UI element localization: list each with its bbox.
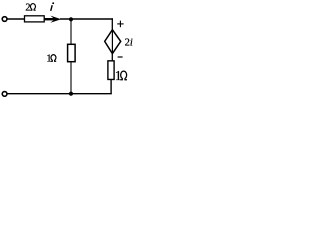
wire middle branch [70, 20, 72, 94]
wire bottom [7, 93, 112, 95]
terminal top-left [2, 17, 7, 22]
svg-text:2: 2 [25, 2, 30, 13]
wire diamond to resistor [111, 53, 113, 61]
minus sign polarity [118, 56, 123, 58]
current arrow i [44, 16, 61, 23]
controlled source U1 diamond [105, 30, 121, 54]
terminal bottom-left [2, 92, 7, 97]
node A junction dot top [69, 17, 73, 21]
svg-text:2i: 2i [125, 38, 133, 49]
wire top-right corner down [111, 18, 113, 30]
resistor R1 value label 2ohm [25, 2, 35, 13]
resistor R2 1ohm box middle [68, 44, 76, 61]
plus sign polarity [117, 21, 123, 28]
wire resistor to bottom [110, 80, 112, 94]
wire top-middle [60, 18, 113, 20]
resistor R3 value label 1ohm [115, 68, 127, 83]
resistor R1 2ohm box [25, 16, 45, 22]
current label i [51, 2, 54, 11]
resistor R2 value label 1ohm [46, 53, 56, 64]
resistor R3 1ohm box right [108, 61, 114, 80]
node B junction dot bottom [69, 92, 73, 96]
wire top-left [7, 18, 25, 20]
controlled source internal wire [111, 30, 113, 53]
